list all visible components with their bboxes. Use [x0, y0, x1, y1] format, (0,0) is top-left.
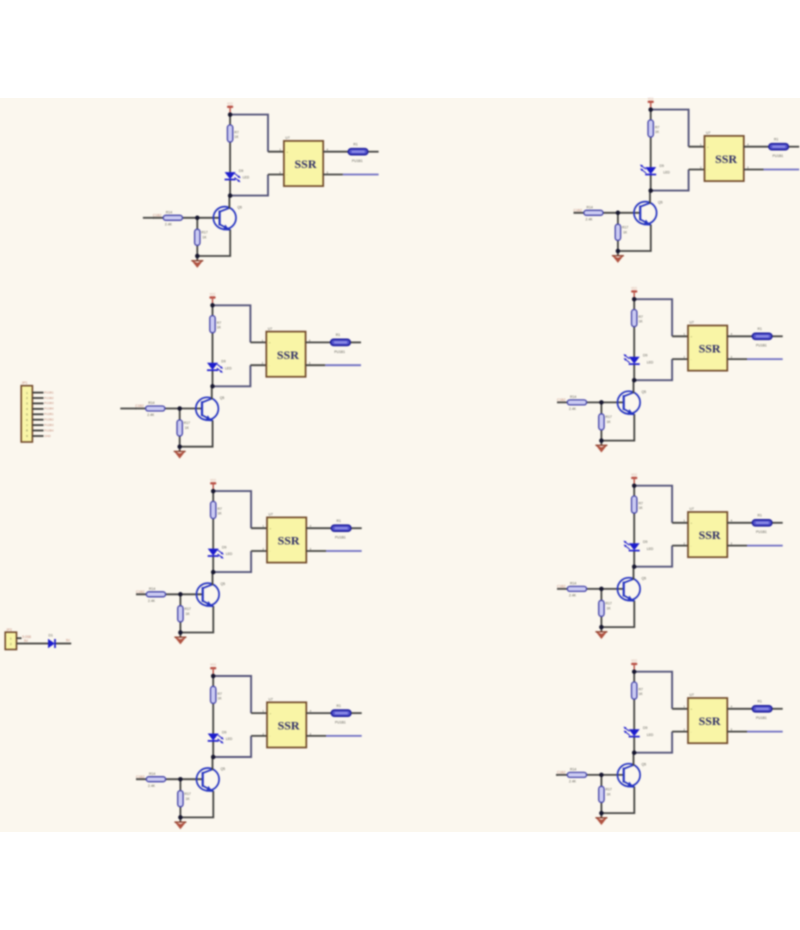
svg-text:PU2B3: PU2B3: [44, 423, 54, 427]
svg-text:PU1B4: PU1B4: [44, 407, 54, 411]
svg-text:JP1: JP1: [22, 381, 28, 385]
svg-text:PU2B2: PU2B2: [44, 418, 54, 422]
svg-text:5.0SB: 5.0SB: [22, 635, 31, 639]
svg-text:PU1B3: PU1B3: [44, 401, 54, 405]
svg-text:PU2B4: PU2B4: [44, 428, 54, 432]
svg-text:5V: 5V: [66, 639, 71, 643]
svg-text:PU2B1: PU2B1: [44, 412, 54, 416]
svg-text:PU1B2: PU1B2: [44, 396, 54, 400]
svg-text:PU1B1: PU1B1: [44, 390, 54, 394]
svg-text:D1: D1: [49, 634, 53, 638]
svg-text:GND: GND: [44, 434, 50, 438]
